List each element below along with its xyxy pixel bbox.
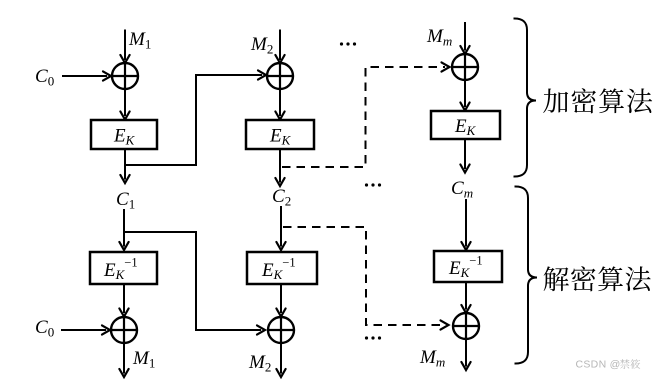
block EKminv (434, 251, 502, 282)
wire M2 output arrow (276, 343, 285, 377)
label C0 top (35, 66, 54, 89)
ellipsis top between columns (340, 42, 356, 45)
block EK2inv (247, 252, 317, 284)
wire dashed feedback C2 toward XORm decrypt (283, 227, 449, 330)
label M1 (128, 29, 151, 52)
label C2 (272, 186, 291, 209)
wire EK1 output arrow to C1 (120, 149, 129, 183)
wire M1 input arrow (120, 30, 129, 64)
node XORm decrypt (453, 313, 479, 339)
node XORm encrypt (452, 54, 478, 80)
label Cm (451, 178, 473, 201)
node XOR1 encrypt (112, 63, 138, 89)
label Mm (426, 26, 452, 49)
wire M2 input arrow (275, 30, 284, 64)
label EK1inv (103, 256, 138, 283)
wire Mm output arrow (461, 339, 470, 370)
label C1 (116, 189, 135, 212)
wire C1 to EK1inv (119, 209, 128, 250)
wire feedback EK1 to XOR2 (125, 70, 266, 165)
label M2 bottom (248, 352, 271, 375)
brace decryption (515, 186, 538, 363)
label C0 bottom (35, 317, 54, 340)
block EK1 (91, 120, 157, 149)
wire EK2 output arrow to C2 (275, 149, 284, 186)
label EK2inv (261, 256, 296, 283)
wire Mm input arrow (460, 22, 469, 54)
label Mm bottom (419, 347, 445, 370)
ellipsis mid right encryption (365, 183, 381, 186)
node XOR2 decrypt (268, 317, 294, 343)
svg-text:CSDN @: CSDN @ (576, 359, 621, 371)
block EKm (431, 111, 500, 139)
wire feedback C1 to XOR2 decrypt (124, 232, 265, 335)
wire C0 input arrow (62, 71, 111, 80)
wire C0 bottom input arrow (61, 325, 110, 334)
wire M1 output arrow (119, 343, 128, 377)
block EK2 (246, 120, 314, 149)
wire Cm to EKminv (461, 199, 470, 250)
wire EK1inv to XOR1 decrypt (119, 284, 128, 317)
wire EK2inv to XOR2 decrypt (276, 284, 285, 317)
wire EKminv to XORm decrypt (461, 282, 470, 313)
label EK1 (113, 126, 136, 148)
brace encryption (514, 18, 537, 176)
wire C2 to EK2inv (276, 206, 285, 250)
node XOR2 encrypt (267, 63, 293, 89)
wire XOR2 to EK2 (275, 89, 284, 120)
label decryption algorithm 解密算法 (544, 266, 651, 291)
label EK2 (269, 126, 292, 148)
label encryption algorithm 加密算法 (543, 88, 652, 113)
ellipsis bottom left of XORm decrypt (365, 336, 381, 339)
block EK1inv (90, 252, 157, 284)
watermark CSDN (576, 359, 641, 371)
wire XORm to EKm (460, 80, 469, 111)
wire XOR1 to EK1 (120, 89, 129, 120)
label EKminv (448, 254, 483, 281)
wire EKm output arrow to Cm (460, 139, 469, 173)
node XOR1 decrypt (111, 317, 137, 343)
wire dashed feedback EK2 toward XORm (282, 62, 450, 167)
label M1 bottom (132, 348, 155, 371)
label EKm (454, 116, 477, 138)
label M2 (250, 34, 273, 57)
